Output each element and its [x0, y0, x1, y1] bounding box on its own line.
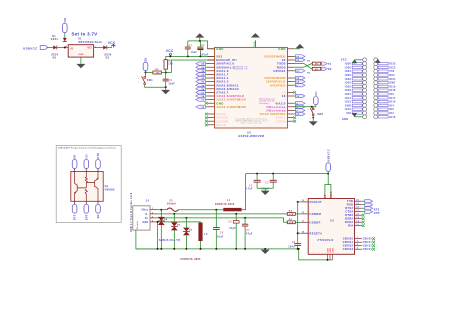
- svg-text:13: 13: [201, 107, 205, 109]
- svg-text:IO32: IO32: [345, 78, 352, 81]
- wire VCC rail: [166, 55, 215, 57]
- svg-text:C3: C3: [169, 80, 173, 82]
- resistor R2 series: [153, 71, 161, 74]
- svg-text:GND: GND: [142, 221, 148, 224]
- net flag EN: [143, 62, 148, 71]
- net flag TX: [320, 63, 323, 65]
- pin 34/A1.6 (left): [208, 70, 215, 72]
- ground flag top of module: [254, 40, 256, 47]
- capacitor C6: [235, 214, 237, 221]
- svg-text:D6: D6: [189, 230, 193, 232]
- svg-text:EN: EN: [98, 214, 100, 218]
- resistor R1 pullup: [165, 56, 167, 59]
- svg-text:17: 17: [356, 210, 359, 212]
- svg-text:4: 4: [152, 219, 153, 222]
- svg-text:VIN: VIN: [65, 18, 67, 23]
- pin 26/A2.9/DAC2 (left): [208, 88, 215, 90]
- svg-text:R4: R4: [289, 210, 293, 213]
- svg-text:10uF: 10uF: [191, 52, 198, 54]
- wire: [161, 72, 171, 74]
- pin 0/Bootstrap (right): [288, 106, 294, 108]
- pin 18/VSPICLK (right): [288, 81, 294, 83]
- svg-text:1: 1: [152, 208, 153, 210]
- pin TXD0 (right): [288, 63, 294, 65]
- pin USBDP (left): [301, 221, 308, 223]
- svg-text:R3: R3: [307, 73, 311, 75]
- svg-text:IO19: IO19: [389, 85, 396, 88]
- svg-text:15: 15: [356, 217, 359, 219]
- pin DCD# (right): [355, 221, 362, 223]
- svg-text:VO: VO: [87, 46, 91, 50]
- wire gnd rail top: [188, 41, 215, 49]
- svg-text:RX: RX: [328, 69, 332, 71]
- svg-text:D-: D-: [145, 213, 148, 216]
- svg-text:100n: 100n: [288, 247, 295, 249]
- diode D6: [53, 46, 57, 50]
- pin 6/CLK (left): [208, 124, 215, 126]
- svg-text:IO5: IO5: [389, 93, 394, 96]
- svg-text:2: 2: [152, 212, 153, 214]
- svg-text:R2: R2: [307, 61, 311, 63]
- svg-text:0R: 0R: [315, 69, 318, 71]
- pin RXD0 (right): [288, 66, 294, 68]
- pin 5/VSPICS (right): [288, 84, 294, 86]
- svg-text:7/SD0: 7/SD0: [276, 119, 286, 123]
- transistor pair Q1 UMH3N: [71, 172, 103, 202]
- wire VBUS: [157, 209, 167, 211]
- svg-text:D+: D+: [145, 217, 149, 220]
- svg-text:VCC: VCC: [166, 49, 174, 53]
- svg-text:D5: D5: [177, 224, 181, 226]
- pin 16 (right): [288, 95, 294, 97]
- svg-text:CBUS3: CBUS3: [343, 247, 354, 251]
- pin 33/A1.5 (left): [208, 81, 215, 83]
- svg-text:SS34: SS34: [51, 38, 58, 41]
- svg-text:DCD#: DCD#: [345, 220, 354, 224]
- svg-text:18: 18: [356, 207, 359, 209]
- svg-text:IO21: IO21: [389, 78, 396, 81]
- svg-text:C2: C2: [201, 45, 205, 47]
- svg-text:GND: GND: [254, 41, 256, 46]
- svg-text:C1: C1: [189, 45, 193, 47]
- svg-text:34: 34: [201, 70, 205, 73]
- svg-text:GND: GND: [278, 47, 285, 51]
- svg-text:RXD: RXD: [347, 203, 354, 207]
- svg-text:CBUS2: CBUS2: [363, 246, 373, 248]
- svg-text:FT231XS-R: FT231XS-R: [318, 239, 334, 242]
- wire D- line: [157, 213, 287, 215]
- pin 36/VP/A1.0 (left): [208, 63, 215, 65]
- pin 2/Bootstrap (right): [288, 109, 294, 111]
- capacitor C9: [294, 243, 301, 245]
- pin CTS# (right): [355, 211, 362, 213]
- ground header J3: [375, 59, 380, 63]
- svg-text:IO39: IO39: [345, 66, 352, 69]
- svg-text:10nF: 10nF: [217, 237, 224, 239]
- svg-text:SW1: SW1: [147, 79, 153, 82]
- pin 3V3OUT (left): [301, 201, 308, 203]
- svg-text:www.espressif.com: www.espressif.com: [241, 123, 262, 125]
- module U3 ESP32-WROVER body: [215, 47, 288, 128]
- svg-text:flashing: flashing: [260, 103, 269, 105]
- svg-text:USBVCC: USBVCC: [326, 149, 330, 162]
- svg-text:IO23: IO23: [389, 63, 396, 66]
- svg-text:CTS#: CTS#: [345, 210, 353, 214]
- pin RTS# (right): [355, 207, 362, 209]
- ferrite L2: [200, 221, 202, 224]
- svg-text:16: 16: [282, 94, 286, 98]
- svg-text:2: 2: [357, 241, 358, 243]
- svg-text:~: ~: [138, 81, 140, 84]
- pins GND bottom: [327, 254, 329, 260]
- svg-text:R5: R5: [289, 219, 293, 221]
- svg-text:RI#: RI#: [348, 224, 353, 228]
- pin CBUS0 (right): [355, 238, 362, 240]
- transistor Q1a: [75, 172, 87, 202]
- svg-text:C7: C7: [246, 230, 250, 232]
- pin GPIO21 (right): [288, 70, 294, 72]
- pin CBUS1 (right): [355, 241, 362, 243]
- header J3: [374, 58, 378, 62]
- svg-text:Set to 3.7V: Set to 3.7V: [72, 31, 98, 36]
- pin GND (left): [208, 102, 215, 104]
- svg-text:SW2: SW2: [317, 113, 323, 116]
- svg-text:C4: C4: [249, 184, 253, 187]
- svg-text:19: 19: [356, 203, 359, 205]
- svg-text:~: ~: [309, 117, 311, 120]
- header J2: [363, 58, 367, 62]
- svg-text:R2: R2: [155, 69, 159, 71]
- pin RESET# (left): [301, 232, 308, 234]
- svg-text:3: 3: [152, 216, 153, 218]
- ground: [312, 116, 314, 122]
- capacitor C2: [199, 50, 201, 56]
- svg-text:12: 12: [201, 100, 205, 102]
- wire: [64, 33, 66, 38]
- power flag VCC: [111, 44, 115, 47]
- wire to VCC pins: [325, 174, 328, 194]
- svg-text:22: 22: [296, 60, 300, 62]
- capacitor C4: [256, 174, 258, 181]
- svg-text:FERRITE-0805: FERRITE-0805: [181, 258, 202, 261]
- resistor R4: [287, 213, 295, 216]
- svg-text:DTR: DTR: [98, 153, 100, 159]
- svg-text:UMH3N: UMH3N: [105, 188, 115, 191]
- svg-text:EN: EN: [146, 58, 148, 62]
- svg-text:IO25: IO25: [345, 85, 352, 88]
- svg-text:10nF: 10nF: [168, 83, 175, 85]
- svg-text:14: 14: [201, 95, 205, 98]
- svg-text:IO27: IO27: [345, 93, 352, 96]
- pin 9/SD2 (left): [208, 113, 215, 115]
- switch SW1: [145, 73, 147, 77]
- svg-text:GND: GND: [78, 54, 84, 56]
- svg-text:IO26: IO26: [345, 89, 352, 92]
- pin USBDM (left): [301, 213, 308, 215]
- wire D+ line: [157, 218, 287, 222]
- pin 4/A2.0 (right): [288, 102, 294, 104]
- wire: [107, 47, 112, 49]
- pin GND of J4: [150, 221, 157, 223]
- svg-text:CBUS1: CBUS1: [363, 242, 373, 244]
- svg-text:VCC: VCC: [108, 41, 116, 45]
- pin 27/A2.7 (left): [208, 91, 215, 93]
- svg-text:IO34: IO34: [345, 70, 352, 73]
- svg-text:CBUS1: CBUS1: [343, 240, 354, 244]
- pin RI# (right): [355, 225, 362, 227]
- svg-text:CBUS0: CBUS0: [343, 237, 354, 241]
- pin CBUS3 (right): [355, 248, 362, 250]
- node VIN junction: [64, 47, 66, 49]
- svg-text:IO2: IO2: [389, 112, 394, 115]
- ground arrow bottom: [261, 250, 270, 254]
- pin 15/A2.3/HSPICS (right): [288, 113, 294, 115]
- svg-text:USBDM: USBDM: [309, 212, 321, 216]
- pin TXD (right): [355, 200, 362, 202]
- svg-text:GND: GND: [216, 47, 223, 51]
- svg-text:~: ~: [307, 108, 309, 111]
- diode D3: [103, 46, 107, 50]
- net flag IO0: [314, 97, 319, 105]
- net flag VIN: [63, 23, 68, 32]
- svg-text:CBUS0: CBUS0: [363, 239, 373, 241]
- ground below U1: [80, 57, 82, 64]
- pin VBus of J4: [150, 209, 157, 211]
- svg-text:GPIO21: GPIO21: [273, 69, 285, 73]
- svg-text:13: 13: [356, 224, 359, 226]
- pin 32/A1.4 (left): [208, 77, 215, 79]
- pin EN/CHIP_PU (left): [208, 59, 215, 61]
- wire: [146, 72, 153, 74]
- pin 23/VSPIMOSI (right): [288, 55, 294, 57]
- pin 10/SD3 (left): [208, 117, 215, 119]
- ground: [165, 86, 167, 88]
- capacitor C5: [272, 174, 274, 181]
- ground: [257, 187, 273, 189]
- svg-text:IO13: IO13: [345, 108, 352, 111]
- svg-text:GND: GND: [345, 104, 351, 107]
- svg-text:GND: GND: [342, 118, 348, 121]
- pin DSR# (right): [355, 218, 362, 220]
- svg-text:IO4: IO4: [389, 104, 394, 107]
- pin 25/A2.8/DAC1 (left): [208, 84, 215, 86]
- svg-text:3: 3: [357, 244, 358, 246]
- svg-text:VBus: VBus: [141, 209, 149, 212]
- svg-text:SMBJ5.0CA-TR: SMBJ5.0CA-TR: [159, 239, 180, 242]
- svg-text:RTS: RTS: [75, 214, 77, 220]
- pin 11/CMD (left): [208, 120, 215, 122]
- svg-text:IO0: IO0: [86, 153, 88, 158]
- wire: [57, 47, 68, 49]
- svg-text:IO35: IO35: [345, 74, 352, 77]
- pin GND (left): [208, 48, 215, 50]
- wire RESET tie: [297, 202, 299, 244]
- switch SW2: [312, 107, 314, 108]
- capacitor C8: [215, 210, 217, 228]
- svg-text:3V3OUT: 3V3OUT: [309, 200, 322, 204]
- ground header J2: [352, 113, 357, 117]
- base resistor network: [85, 172, 94, 202]
- svg-text:GND: GND: [332, 247, 334, 252]
- svg-text:ESP32-WROVER: ESP32-WROVER: [238, 134, 264, 138]
- pin VCC: [324, 194, 326, 199]
- svg-text:TXD: TXD: [347, 199, 353, 203]
- svg-text:L1: L1: [227, 200, 231, 202]
- net flag DTR (bottom): [85, 201, 87, 204]
- wire gnd jog: [299, 249, 333, 260]
- pin VCCIO: [330, 194, 332, 199]
- resistor R3b: [312, 67, 320, 70]
- capacitor C3: [165, 73, 167, 80]
- wire VBUS riser to USBVCC rail: [242, 174, 246, 210]
- svg-text:IO36: IO36: [345, 63, 352, 66]
- ground top arrow: [199, 38, 201, 41]
- svg-text:27R: 27R: [289, 222, 294, 224]
- net flag RX: [320, 68, 323, 70]
- svg-text:DSR#: DSR#: [345, 217, 354, 221]
- capacitor C7: [244, 218, 246, 224]
- pin CBUS2 (right): [355, 245, 362, 247]
- svg-text:21: 21: [296, 71, 300, 73]
- pin RXD (right): [355, 204, 362, 206]
- resistor R5: [287, 221, 295, 224]
- ground flag right of module: [294, 48, 300, 50]
- svg-text:TX: TX: [328, 64, 332, 66]
- svg-text:100uF: 100uF: [200, 54, 209, 56]
- wire IO0 to SW2: [294, 106, 316, 108]
- wire TXD0/RXD0 crossover: [294, 63, 305, 65]
- svg-text:VCC: VCC: [341, 58, 347, 61]
- pin 17 (right): [288, 91, 294, 93]
- transistor Q1b: [95, 172, 98, 202]
- fuse F1: [167, 208, 179, 211]
- svg-text:IO16: IO16: [389, 101, 396, 104]
- annotation box USB-UART interface: [56, 146, 121, 223]
- TVS diode D4: [160, 210, 162, 217]
- svg-text:13/A2.4/HSPIMOSI: 13/A2.4/HSPIMOSI: [216, 105, 246, 109]
- svg-text:FERRITE-0805: FERRITE-0805: [215, 204, 235, 206]
- wire 3V3OUT: [298, 201, 301, 203]
- svg-text:TX0: TX0: [389, 70, 395, 73]
- pin 3V3 (left): [208, 55, 215, 57]
- svg-text:IO15: IO15: [389, 116, 396, 119]
- wire: [178, 209, 223, 211]
- net flag RTS (bottom): [74, 201, 76, 204]
- svg-text:IO17: IO17: [389, 97, 396, 100]
- svg-text:USBVCC: USBVCC: [23, 47, 38, 51]
- svg-text:~: ~: [138, 78, 140, 81]
- TVS diode D5: [173, 214, 175, 222]
- svg-text:6/CLK: 6/CLK: [216, 123, 227, 127]
- net flag EN (bottom): [97, 201, 99, 204]
- svg-text:D3: D3: [106, 56, 110, 59]
- svg-text:Shield: Shield: [137, 221, 139, 230]
- svg-text:L2: L2: [204, 234, 208, 236]
- svg-text:1: 1: [357, 237, 358, 239]
- wire R4 to USBDM: [295, 213, 301, 215]
- svg-text:RX0: RX0: [389, 74, 395, 77]
- svg-text:RTS#: RTS#: [345, 206, 353, 210]
- svg-text:47pF: 47pF: [229, 227, 236, 230]
- svg-text:USB-UART Programming and Debug: USB-UART Programming and Debugging Inter…: [58, 147, 116, 150]
- pin DTR# (right): [355, 214, 362, 216]
- pin 13/A2.4/HSPIMOSI (left): [208, 106, 215, 108]
- node EN junction: [145, 72, 147, 74]
- svg-text:100: 100: [156, 73, 160, 75]
- svg-text:DTR: DTR: [374, 212, 380, 215]
- svg-text:EN: EN: [75, 155, 77, 159]
- svg-text:C6: C6: [228, 222, 232, 224]
- wire EN to ESP32: [172, 60, 215, 73]
- svg-text:16: 16: [296, 96, 300, 98]
- net flag USBVCC 2: [326, 163, 331, 172]
- net flag IO0 (top): [84, 160, 89, 169]
- diode D1: [63, 38, 67, 42]
- svg-text:5/VSPICS: 5/VSPICS: [270, 83, 286, 87]
- svg-text:IO0: IO0: [316, 91, 318, 96]
- net flag EN (top): [72, 160, 77, 169]
- svg-text:20: 20: [356, 200, 359, 202]
- svg-text:C9: C9: [292, 242, 296, 244]
- svg-text:C8: C8: [220, 232, 224, 234]
- pin D+ of J4: [150, 217, 157, 219]
- svg-text:15: 15: [296, 114, 300, 116]
- pin 19/VSPIMISO (right): [288, 77, 294, 79]
- svg-text:D4: D4: [164, 218, 168, 221]
- wire GND line to L2: [157, 221, 201, 223]
- svg-text:GND: GND: [389, 82, 395, 85]
- pin D- of J4: [150, 213, 157, 215]
- svg-text:IO9: IO9: [346, 112, 351, 115]
- wire shield to gnd rail: [136, 230, 158, 249]
- svg-text:4.7uF: 4.7uF: [245, 188, 253, 191]
- pin 39/VN/A1.3 (left): [208, 66, 215, 68]
- svg-text:CBUS3: CBUS3: [363, 249, 373, 251]
- svg-text:MP1584EN Buck: MP1584EN Buck: [78, 41, 102, 44]
- wire: [145, 85, 166, 88]
- wire gnd rail bottom: [136, 248, 299, 250]
- TVS diode D6b: [185, 218, 187, 228]
- svg-text:16: 16: [356, 214, 359, 216]
- svg-text:RESET#: RESET#: [309, 231, 322, 235]
- svg-text:IO14: IO14: [345, 97, 352, 100]
- wire: [94, 47, 104, 49]
- svg-text:10k: 10k: [168, 64, 173, 66]
- wire: [47, 47, 53, 49]
- svg-text:IO0: IO0: [389, 108, 394, 111]
- svg-text:USBDP: USBDP: [309, 220, 320, 224]
- svg-text:SENSOR_VN: SENSOR_VN: [234, 69, 248, 71]
- svg-text:DTR#: DTR#: [345, 213, 353, 217]
- svg-text:500mA: 500mA: [167, 203, 176, 206]
- pin 22 (right): [288, 59, 294, 61]
- svg-text:27R: 27R: [289, 214, 294, 216]
- svg-text:0R: 0R: [315, 64, 318, 66]
- pin 7/SD0 (right): [288, 120, 294, 122]
- ferrite L1: [223, 208, 241, 211]
- pin 8/SD1 (right): [288, 117, 294, 119]
- pin 12/A2.5/HSPIMISO (left): [208, 99, 215, 101]
- svg-text:C5: C5: [265, 182, 269, 184]
- svg-text:J4: J4: [146, 200, 150, 203]
- svg-text:IO18: IO18: [389, 89, 396, 92]
- svg-text:IO22: IO22: [389, 66, 396, 69]
- capacitor C1: [187, 49, 189, 57]
- svg-text:D6: D6: [53, 56, 57, 59]
- wire USBVCC rail: [246, 173, 329, 175]
- svg-text:CBUS2: CBUS2: [343, 244, 354, 248]
- net flag DTR (top): [96, 160, 101, 169]
